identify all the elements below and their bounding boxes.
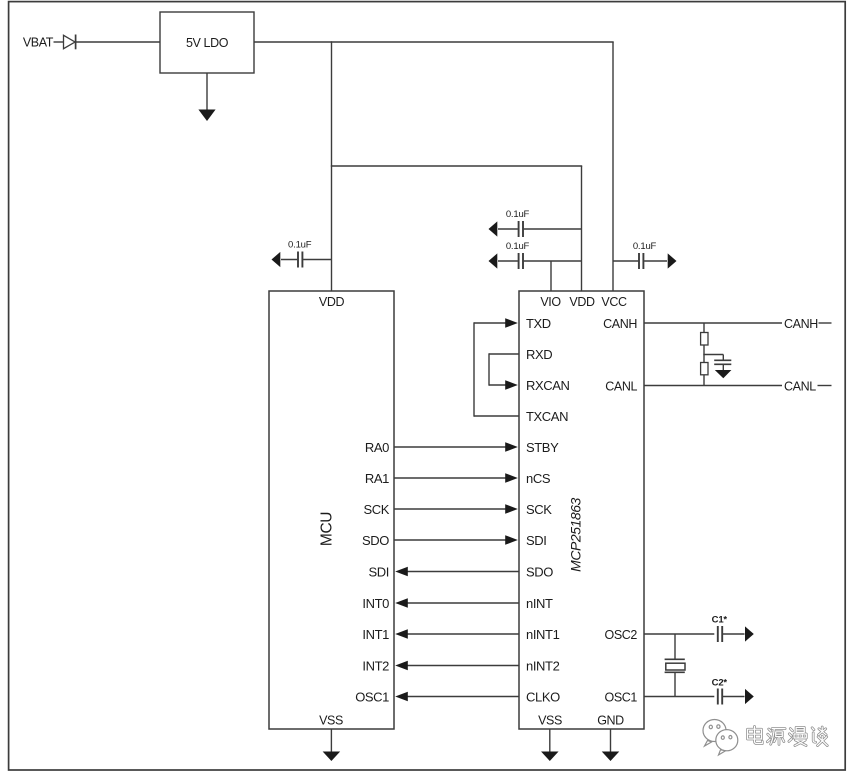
svg-text:VSS: VSS bbox=[319, 714, 343, 728]
wire CANL bbox=[644, 385, 782, 387]
svg-text:SDO: SDO bbox=[526, 564, 553, 579]
wire VBAT to diode anode bbox=[54, 41, 64, 43]
wire termination bottom bbox=[703, 375, 705, 386]
crystal bbox=[665, 659, 685, 672]
svg-text:VBAT: VBAT bbox=[23, 36, 54, 50]
svg-text:VCC: VCC bbox=[601, 295, 627, 309]
svg-text:CLKO: CLKO bbox=[526, 689, 560, 704]
wire between resistors bbox=[703, 345, 705, 363]
ground MCP VSS bbox=[541, 729, 559, 761]
svg-text:GND: GND bbox=[597, 714, 624, 728]
wire OSC1 bbox=[644, 696, 714, 698]
svg-text:OSC1: OSC1 bbox=[355, 689, 389, 704]
wire TXD loop bbox=[474, 318, 518, 417]
svg-text:CANH: CANH bbox=[784, 317, 818, 331]
ground at 5V LDO bbox=[198, 73, 215, 121]
wire SCK to SCK bbox=[394, 504, 518, 514]
wire CLKO to OSC1 bbox=[395, 692, 519, 702]
svg-text:CANL: CANL bbox=[784, 379, 816, 393]
wire TXCAN segment bbox=[474, 415, 519, 417]
wire SDO to SDI bbox=[394, 535, 518, 545]
svg-text:SCK: SCK bbox=[526, 502, 552, 517]
capacitor 0.1uF MCP VCC bypass bbox=[613, 253, 677, 269]
svg-text:MCU: MCU bbox=[319, 512, 336, 546]
svg-text:5V LDO: 5V LDO bbox=[186, 36, 229, 50]
svg-text:INT2: INT2 bbox=[362, 658, 389, 673]
watermark text 电源漫谈 bbox=[748, 727, 828, 746]
wire RA0 to STBY bbox=[394, 442, 518, 452]
svg-text:CANH: CANH bbox=[603, 317, 637, 331]
wire RXD loop bbox=[489, 353, 519, 390]
wire RA1 to nCS bbox=[394, 473, 518, 483]
svg-text:INT0: INT0 bbox=[362, 596, 389, 611]
resistor split termination upper bbox=[701, 333, 708, 346]
svg-text:SCK: SCK bbox=[363, 502, 389, 517]
wire crystal top bbox=[674, 634, 676, 659]
wire nINT1 to INT1 bbox=[395, 629, 519, 639]
svg-text:RA0: RA0 bbox=[365, 440, 389, 455]
capacitor 0.1uF MCU VDD bypass bbox=[272, 252, 332, 268]
svg-text:TXD: TXD bbox=[526, 316, 551, 331]
svg-text:VDD: VDD bbox=[319, 295, 345, 309]
capacitor C2* bbox=[718, 689, 754, 705]
svg-text:RXCAN: RXCAN bbox=[526, 378, 570, 393]
capacitor 0.1uF MCP VIO bypass bbox=[489, 253, 582, 269]
svg-text:SDI: SDI bbox=[526, 533, 546, 548]
svg-text:0.1uF: 0.1uF bbox=[506, 241, 530, 252]
svg-text:OSC2: OSC2 bbox=[605, 628, 638, 642]
svg-text:SDO: SDO bbox=[362, 533, 389, 548]
ground split termination bbox=[715, 364, 732, 378]
capacitor 0.1uF MCP VDD bypass bbox=[489, 221, 582, 237]
svg-text:OSC1: OSC1 bbox=[605, 690, 638, 704]
svg-text:nINT2: nINT2 bbox=[526, 658, 560, 673]
wire vertical 5V to MCU VDD bbox=[331, 41, 333, 291]
wire horizontal branch to MCP VDD bbox=[331, 165, 582, 167]
svg-text:nINT: nINT bbox=[526, 596, 553, 611]
capacitor split termination bbox=[714, 360, 731, 364]
svg-text:CANL: CANL bbox=[605, 379, 637, 393]
svg-text:VIO: VIO bbox=[540, 295, 561, 309]
ground MCU VSS bbox=[323, 729, 341, 761]
svg-text:INT1: INT1 bbox=[362, 627, 389, 642]
wire split cap tap bbox=[703, 355, 723, 361]
svg-text:nINT1: nINT1 bbox=[526, 627, 560, 642]
node CANH bbox=[784, 317, 832, 331]
wire crystal bottom bbox=[674, 672, 676, 696]
regulator 5V LDO bbox=[160, 12, 254, 73]
svg-text:SDI: SDI bbox=[369, 564, 389, 579]
wire termination top bbox=[703, 323, 705, 333]
svg-text:0.1uF: 0.1uF bbox=[288, 239, 312, 250]
svg-text:RA1: RA1 bbox=[365, 471, 389, 486]
svg-text:nCS: nCS bbox=[526, 471, 551, 486]
svg-text:TXCAN: TXCAN bbox=[526, 409, 568, 424]
wire SDO to SDI bbox=[395, 567, 519, 577]
svg-text:C1*: C1* bbox=[712, 614, 728, 625]
MCU bbox=[269, 291, 394, 729]
node CANL bbox=[784, 379, 832, 393]
svg-text:RXD: RXD bbox=[526, 347, 552, 362]
wire OSC2 bbox=[644, 633, 714, 635]
wire CANH bbox=[644, 322, 782, 324]
watermark logo bbox=[703, 720, 738, 756]
svg-text:C2*: C2* bbox=[712, 677, 728, 688]
ground MCP GND bbox=[602, 729, 620, 761]
wire nINT to INT0 bbox=[395, 598, 519, 608]
diode bbox=[64, 35, 76, 50]
svg-text:VDD: VDD bbox=[569, 295, 595, 309]
wire 5V rail from LDO to VCC branch bbox=[254, 41, 614, 43]
wire VIO pin drop bbox=[550, 261, 552, 291]
wire nINT2 to INT2 bbox=[395, 661, 519, 671]
wire diode cathode to 5V LDO input bbox=[76, 41, 160, 43]
svg-text:MCP251863: MCP251863 bbox=[568, 497, 584, 571]
transceiver MCP251863 bbox=[519, 291, 644, 729]
resistor split termination lower bbox=[701, 363, 708, 375]
wire vertical to MCP VDD pin bbox=[581, 166, 583, 291]
svg-text:VSS: VSS bbox=[538, 714, 562, 728]
svg-text:0.1uF: 0.1uF bbox=[506, 209, 530, 220]
capacitor C1* bbox=[718, 626, 754, 642]
svg-text:0.1uF: 0.1uF bbox=[633, 241, 657, 252]
wire vertical to MCP VCC pin bbox=[612, 42, 614, 291]
svg-text:STBY: STBY bbox=[526, 440, 559, 455]
